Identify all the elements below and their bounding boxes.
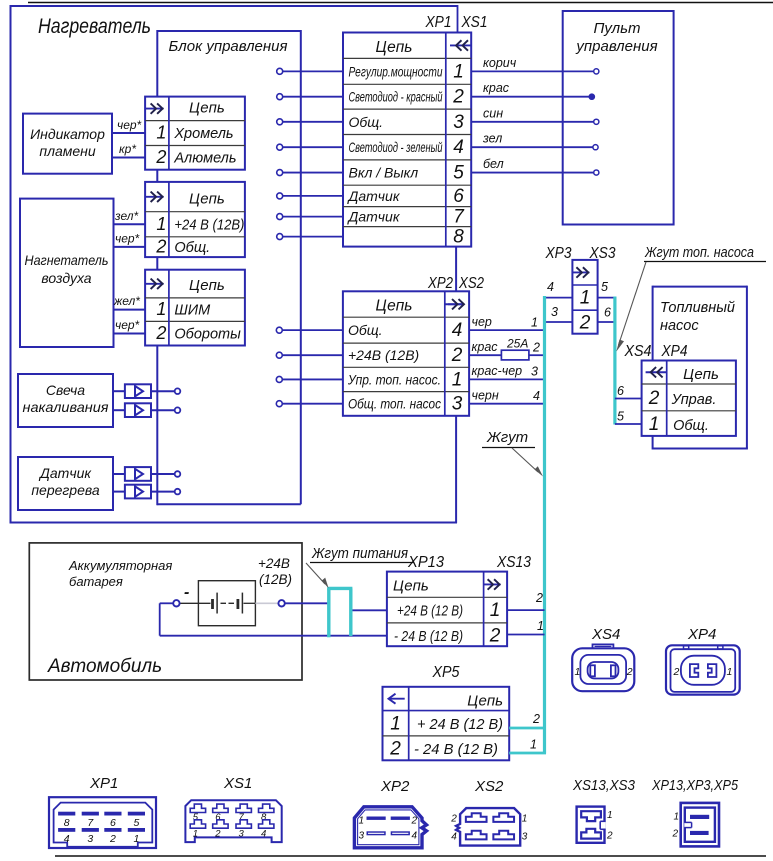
svg-text:1: 1 (522, 814, 528, 825)
svg-text:XP13: XP13 (407, 554, 444, 571)
svg-text:2: 2 (155, 323, 166, 343)
svg-text:5: 5 (617, 410, 624, 424)
svg-text:корич: корич (483, 56, 517, 70)
svg-text:син: син (483, 106, 503, 120)
wire крас XP1 pin 2 to control panel (471, 81, 594, 99)
wire harness to XP3 pin 1 (545, 280, 573, 298)
connector table (air blower power) pins 1-2 (145, 182, 245, 257)
label XP2 (table) (427, 275, 453, 292)
svg-text:3: 3 (453, 112, 464, 133)
svg-text:управления: управления (575, 38, 657, 55)
svg-text:Светодиод - красный: Светодиод - красный (349, 89, 443, 105)
svg-text:2: 2 (489, 626, 501, 647)
connector face view XP2 (354, 807, 426, 848)
svg-text:4: 4 (533, 389, 540, 403)
svg-text:5: 5 (453, 163, 464, 184)
svg-text:Упр. топ. насос.: Упр. топ. насос. (347, 371, 441, 387)
frame line top (28, 2, 773, 4)
wire крас XP2 pin 2 (fuse feed) (469, 340, 544, 355)
svg-text:крас: крас (472, 340, 499, 354)
svg-text:2: 2 (450, 814, 457, 825)
svg-text:пламени: пламени (39, 143, 95, 159)
svg-text:Регулир.мощности: Регулир.мощности (349, 63, 443, 79)
svg-text:6: 6 (110, 817, 116, 829)
svg-text:4: 4 (547, 280, 554, 294)
svg-text:XP3: XP3 (545, 245, 572, 262)
svg-text:XS2: XS2 (458, 275, 484, 292)
label Топливный насос (660, 300, 735, 334)
svg-text:2: 2 (214, 829, 221, 840)
box Индикатор пламени (23, 114, 112, 174)
svg-text:1: 1 (133, 833, 139, 845)
wire син XP1 pin 3 to control panel (471, 106, 599, 124)
connector face view XS4 (572, 644, 634, 691)
wire жел* (blower ШИМ) (113, 294, 145, 310)
svg-text:2: 2 (579, 313, 591, 334)
battery Аккумуляторная батарея (180, 581, 279, 626)
svg-text:Цепь: Цепь (376, 39, 413, 56)
svg-text:2: 2 (532, 341, 540, 355)
svg-text:2: 2 (389, 739, 401, 760)
svg-text:XS1: XS1 (223, 775, 252, 792)
svg-text:1: 1 (607, 810, 613, 821)
svg-text:чер: чер (472, 315, 492, 329)
label XP13,XP3,XP5 (face) (651, 778, 739, 794)
svg-text:+24 В (12 В): +24 В (12 В) (397, 604, 463, 620)
svg-text:Нагнетатель: Нагнетатель (25, 252, 109, 268)
svg-text:Цепь: Цепь (189, 191, 225, 208)
wire power harness to XP13 (+24V) (351, 609, 387, 611)
svg-text:зел*: зел* (114, 209, 138, 223)
svg-text:2: 2 (626, 666, 633, 678)
label XP5 (432, 664, 460, 681)
box Датчик перегрева (18, 457, 113, 510)
svg-text:Жгут питания: Жгут питания (311, 546, 408, 562)
wire зел XP1 pin 4 to control panel (471, 132, 598, 150)
svg-text:2: 2 (155, 236, 166, 256)
svg-text:XS13: XS13 (496, 554, 531, 571)
svg-text:Топливный: Топливный (660, 300, 735, 316)
svg-text:4: 4 (452, 320, 463, 341)
vehicle box Автомобиль (29, 543, 302, 680)
wire control unit to XP1 pin 3 (277, 119, 343, 125)
svg-text:Хромель: Хромель (173, 126, 233, 142)
wire battery + to power harness (285, 602, 329, 604)
svg-text:1: 1 (452, 369, 463, 390)
wire XS13 pin 1 to harness (507, 591, 544, 610)
svg-text:Блок управления: Блок управления (169, 38, 288, 55)
wire control unit to XP1 pin 8 (277, 234, 343, 240)
svg-text:Жгут топ. насоса: Жгут топ. насоса (644, 245, 754, 261)
label XP4 (table) (661, 343, 688, 360)
svg-text:1: 1 (580, 288, 591, 309)
connector face view XP4 (666, 645, 740, 694)
label XS1 (face) (223, 775, 252, 792)
svg-text:7: 7 (87, 817, 94, 829)
connector table XP5 (383, 687, 510, 761)
svg-text:2: 2 (109, 833, 116, 845)
svg-text:Нагреватель: Нагреватель (38, 15, 151, 38)
svg-text:2: 2 (606, 831, 613, 842)
svg-text:25А: 25А (506, 337, 528, 351)
frame line bottom (55, 855, 766, 857)
connector table XP2/XS2 (343, 291, 469, 416)
svg-text:+24В (12В): +24В (12В) (348, 347, 419, 363)
svg-text:крас-чер: крас-чер (472, 364, 523, 378)
wire черн XP2 pin 3 to harness (469, 389, 544, 404)
svg-text:1: 1 (390, 714, 401, 735)
svg-text:4: 4 (64, 833, 70, 845)
wire control unit to XP1 pin 7 (277, 214, 343, 220)
svg-text:XP13,XP3,XP5: XP13,XP3,XP5 (651, 778, 739, 794)
control panel box Пульт управления (563, 11, 674, 225)
svg-text:Обороты: Обороты (174, 326, 241, 342)
wire pump harness to XS4 pin 1 (615, 410, 642, 425)
svg-text:воздуха: воздуха (41, 270, 91, 286)
svg-text:Свеча: Свеча (46, 382, 85, 398)
connector face view XS2 (450, 808, 528, 846)
wire корич XP1 pin 1 to control panel (471, 56, 599, 74)
svg-text:Общ.: Общ. (348, 322, 383, 338)
svg-text:Цепь: Цепь (393, 578, 429, 595)
wire pump harness to XS4 pin 2 (615, 384, 642, 399)
svg-text:1: 1 (530, 738, 537, 752)
svg-text:Автомобиль: Автомобиль (47, 656, 162, 677)
svg-text:1: 1 (649, 414, 660, 435)
svg-text:3: 3 (87, 833, 93, 845)
svg-text:2: 2 (155, 147, 166, 167)
svg-text:Общ. топ. насос: Общ. топ. насос (348, 396, 441, 412)
svg-text:1: 1 (537, 619, 544, 633)
label XS13,XS3 (face) (572, 778, 635, 794)
svg-text:2: 2 (532, 712, 540, 726)
svg-text:бел: бел (483, 157, 504, 171)
battery terminal - (node) (173, 584, 189, 607)
contact symbol + wire (overheat sensor 1) (112, 467, 180, 481)
connector face view XS13/XS3 (577, 807, 613, 843)
svg-text:Цепь: Цепь (467, 693, 503, 710)
svg-text:2: 2 (451, 345, 463, 366)
svg-text:6: 6 (453, 186, 464, 207)
svg-text:Цепь: Цепь (189, 277, 225, 294)
svg-text:1: 1 (674, 812, 680, 823)
svg-text:5: 5 (133, 817, 139, 829)
svg-text:XS13,XS3: XS13,XS3 (572, 778, 635, 794)
control unit box Блок управления (157, 30, 300, 505)
label XS2 (table) (458, 275, 484, 292)
label XS1 (461, 14, 488, 31)
svg-text:1: 1 (156, 299, 166, 319)
svg-text:1: 1 (156, 214, 166, 234)
connector table XS4/XP4 (642, 361, 736, 436)
svg-text:- 24 В (12 В): - 24 В (12 В) (394, 629, 463, 645)
svg-text:7: 7 (453, 207, 465, 228)
svg-text:2: 2 (535, 591, 543, 605)
wire control unit to XP2 row 3 (276, 376, 343, 382)
main harness trunk Жгут (cyan) (543, 296, 546, 754)
wire бел XP1 pin 5 to control panel (471, 157, 599, 175)
svg-text:Общ.: Общ. (349, 114, 384, 130)
battery terminal + (node) (278, 600, 284, 606)
connector face view XS1 (185, 800, 281, 842)
svg-text:3: 3 (359, 831, 365, 842)
svg-text:1: 1 (490, 600, 501, 621)
connector table XP1/XS1 (343, 33, 471, 248)
svg-text:ШИМ: ШИМ (174, 303, 211, 319)
wire XS3 pin 1 to pump harness (598, 280, 615, 298)
svg-text:2: 2 (672, 829, 679, 840)
fuel pump harness trunk (cyan) (613, 297, 616, 425)
svg-text:+ 24 В (12 В): + 24 В (12 В) (417, 717, 503, 733)
wire зел* (blower +24V) (114, 209, 146, 224)
svg-text:+24 В (12В): +24 В (12В) (174, 217, 244, 233)
svg-text:батарея: батарея (69, 574, 123, 589)
svg-text:перегрева: перегрева (31, 482, 100, 498)
wire harness to XP3 pin 2 (545, 305, 573, 322)
label XP1 (425, 14, 452, 31)
wire control unit to XP1 pin 5 (277, 170, 343, 176)
heater enclosure Нагреватель (10, 5, 458, 524)
svg-text:XS4: XS4 (591, 626, 620, 643)
svg-text:(12В): (12В) (259, 572, 292, 587)
svg-text:8: 8 (453, 227, 464, 248)
wire harness to XP5 pin 1 (cyan) (509, 712, 546, 728)
svg-text:Управ.: Управ. (671, 392, 717, 408)
wire чер XP2 pin 4 to harness (469, 315, 544, 330)
svg-text:3: 3 (531, 365, 538, 379)
svg-text:XS3: XS3 (589, 245, 616, 262)
svg-text:6: 6 (617, 384, 624, 398)
label Жгут питания (306, 546, 414, 588)
svg-text:XS2: XS2 (474, 778, 504, 795)
label XP13 (407, 554, 444, 571)
wire control unit to XP1 pin 6 (277, 193, 343, 199)
connector XP3/XS3 (572, 260, 597, 334)
connector face view XP1 (49, 797, 156, 848)
svg-text:1: 1 (531, 316, 538, 330)
svg-text:1: 1 (453, 61, 464, 82)
contact symbol + wire (glow plug 2) (112, 403, 180, 417)
label XS4 (face) (591, 626, 620, 643)
svg-text:Аккумуляторная: Аккумуляторная (68, 558, 172, 573)
svg-text:чер*: чер* (115, 318, 140, 332)
connector table (flame indicator) pins 1-2 (145, 97, 245, 170)
label Блок управления (169, 38, 288, 55)
label XP4 (face) (687, 626, 716, 643)
wire control unit to XP2 row 1 (276, 327, 343, 333)
svg-text:1: 1 (575, 666, 581, 678)
label XP1 (face) (89, 775, 118, 792)
wire control unit to XP1 pin 2 (277, 94, 343, 100)
svg-text:XP4: XP4 (661, 343, 688, 360)
svg-text:Цепь: Цепь (189, 100, 225, 117)
wire XS13 pin 2 to harness (507, 619, 544, 635)
svg-text:3: 3 (551, 305, 558, 319)
svg-text:4: 4 (451, 832, 457, 843)
svg-text:Индикатор: Индикатор (30, 126, 105, 142)
svg-text:Светодиод - зеленый: Светодиод - зеленый (349, 139, 443, 155)
wire чер* (blower Общ) (114, 232, 146, 247)
svg-text:1: 1 (156, 123, 166, 143)
wire control unit to XP2 row 2 (276, 352, 343, 358)
wire кр* (flame indicator pin 2) (112, 142, 145, 158)
svg-text:насос: насос (660, 318, 699, 334)
svg-text:чер*: чер* (115, 232, 140, 246)
power harness symbol Жгут питания (cyan) (327, 588, 352, 637)
label Нагреватель (38, 15, 151, 38)
wire чер* (flame indicator pin 1) (112, 118, 145, 133)
label XS4 (table) (624, 343, 652, 360)
box Свеча накаливания (18, 374, 113, 427)
svg-text:3: 3 (239, 829, 245, 840)
svg-text:крас: крас (483, 81, 510, 95)
label Жгут топ. насоса (616, 245, 766, 352)
svg-text:Датчик: Датчик (38, 465, 92, 481)
svg-text:2: 2 (452, 87, 464, 108)
svg-text:Цепь: Цепь (683, 366, 719, 383)
wire чер* (blower Обороты) (114, 318, 146, 334)
svg-text:XS4: XS4 (624, 343, 652, 360)
svg-text:Цепь: Цепь (376, 298, 413, 315)
svg-text:чер*: чер* (117, 118, 142, 132)
svg-text:2: 2 (648, 388, 660, 409)
svg-text:2: 2 (411, 816, 418, 827)
connector table XP13/XS13 (387, 572, 507, 647)
label XS13 (496, 554, 531, 571)
svg-text:- 24 В (12 В): - 24 В (12 В) (414, 742, 498, 758)
wire крас-чер XP2 pin 1 to harness (469, 364, 544, 379)
contact symbol + wire (glow plug 1) (112, 384, 180, 398)
svg-text:Датчик: Датчик (347, 209, 401, 225)
svg-text:3: 3 (452, 394, 463, 415)
svg-text:черн: черн (472, 389, 499, 403)
svg-text:1: 1 (727, 666, 733, 678)
fuel pump box Топливный насос (653, 286, 748, 450)
label XS2 (face) (474, 778, 504, 795)
svg-text:5: 5 (601, 280, 608, 294)
wire control unit to XP2 row 4 (276, 401, 343, 407)
wire XS3 pin 2 to pump harness (598, 306, 615, 323)
svg-text:Общ.: Общ. (673, 418, 709, 434)
svg-text:XP2: XP2 (380, 778, 410, 795)
wire battery - to XP13 (-24V) (160, 603, 387, 635)
svg-text:XP4: XP4 (687, 626, 716, 643)
svg-text:3: 3 (522, 832, 528, 843)
svg-text:-: - (184, 584, 189, 601)
svg-text:1: 1 (193, 829, 198, 840)
connector face view XP13/XP3/XP5 (672, 803, 720, 847)
svg-text:4: 4 (261, 829, 266, 840)
svg-text:Вкл / Выкл: Вкл / Выкл (349, 165, 419, 181)
label +24В (12В) (258, 556, 292, 587)
label Жгут (482, 429, 543, 477)
label XP3 (545, 245, 572, 262)
svg-text:1: 1 (359, 816, 365, 827)
svg-text:Пульт: Пульт (593, 20, 640, 37)
svg-text:зел: зел (482, 132, 502, 146)
box Нагнетатель воздуха (20, 199, 114, 347)
svg-text:Жгут: Жгут (486, 429, 528, 446)
svg-text:XP1: XP1 (89, 775, 118, 792)
svg-text:накаливания: накаливания (23, 399, 110, 415)
connector table (air blower control) pins 1-2 (145, 270, 245, 346)
svg-text:2: 2 (673, 666, 680, 678)
contact symbol + wire (overheat sensor 2) (112, 485, 180, 499)
svg-text:XP5: XP5 (432, 664, 460, 681)
fuse 25A (501, 337, 529, 360)
label XP2 (face) (380, 778, 410, 795)
wire harness to XP5 pin 2 (cyan) (509, 738, 546, 754)
svg-text:4: 4 (453, 137, 464, 158)
svg-text:Датчик: Датчик (347, 188, 401, 204)
svg-text:Общ.: Общ. (174, 240, 210, 256)
wire control unit to XP1 pin 4 (277, 144, 343, 150)
svg-text:XS1: XS1 (461, 14, 488, 31)
svg-text:8: 8 (64, 817, 70, 829)
label XS3 (589, 245, 616, 262)
svg-text:кр*: кр* (119, 142, 136, 156)
svg-text:6: 6 (604, 306, 611, 320)
svg-text:жел*: жел* (113, 294, 140, 308)
svg-text:XP1: XP1 (425, 14, 452, 31)
svg-text:4: 4 (412, 831, 418, 842)
svg-text:XP2: XP2 (427, 275, 453, 292)
svg-text:+24В: +24В (258, 556, 290, 571)
wire control unit to XP1 pin 1 (277, 68, 343, 74)
svg-text:Алюмель: Алюмель (173, 151, 236, 167)
